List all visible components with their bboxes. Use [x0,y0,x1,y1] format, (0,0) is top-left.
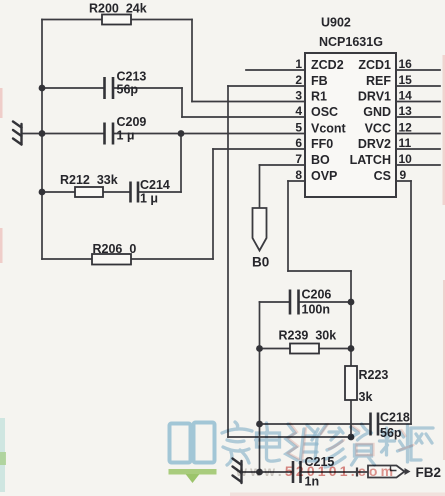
wire: pin 8 OVP stub [288,180,305,182]
svg-text:BO: BO [311,153,330,167]
wire: C206 row left corner [260,301,290,303]
svg-text:11: 11 [399,136,412,150]
resistor R200 [102,15,131,25]
wire: pin 7 B0 stub [260,164,306,166]
svg-text:56p: 56p [117,83,139,97]
junction bottom row [256,469,263,476]
wire: FF0 vertical to R206 [212,149,214,259]
junction C218 row left [256,421,263,428]
wire: C206 row right [300,301,352,303]
watermark logo: open book (right page) [194,423,215,463]
svg-text:R212 33k: R212 33k [60,173,118,187]
wire: left bus to R212 [42,191,75,193]
wire: C218 to CS corner [379,423,412,425]
svg-text:R206 0: R206 0 [93,242,137,256]
wire: C214 riser [180,134,182,193]
wire: pin 13 GND stub [396,116,440,118]
wire: C218 row left [260,423,371,425]
svg-text:ZCD1: ZCD1 [358,58,391,72]
watermark char 网 [411,428,433,460]
svg-text:6: 6 [295,136,302,150]
connector B0 (arrow down) [253,208,267,251]
svg-text:14: 14 [399,89,413,103]
wire: C214 right link [139,191,182,193]
resistor R223 (vertical) [345,366,357,400]
junction R239 right [348,345,355,352]
wire: pin 6 FF0 horizontal [213,148,305,150]
junction C214 riser at Vcont row [178,130,185,137]
junction on left bus at R212 row [39,189,46,196]
wire: B0 drop [259,165,261,208]
svg-text:LATCH: LATCH [350,153,391,167]
wire: pin 14 DRV1 stub [396,101,440,103]
watermark char 维 [286,424,318,463]
watermark red fringe strokes [288,423,414,462]
resistor R206 [92,254,131,265]
wire: C213 to corner [114,87,183,89]
svg-text:13: 13 [399,104,413,118]
op-amp/IC U902 body [305,53,396,197]
watermark char 修 [312,425,345,467]
svg-text:VCC: VCC [365,122,391,136]
capacitor C218 plates [369,413,372,436]
watermark logo: open book (left page) [170,424,191,463]
wire: pin 5 Vcont row [114,133,306,135]
wire: R239 row right [319,348,351,350]
svg-text:3: 3 [295,89,302,103]
ground (bottom row) [233,459,242,484]
wire: pin 10 LATCH stub [396,164,440,166]
resistor R239 [290,344,319,354]
wire: left bus vertical [41,20,43,260]
wire: C213 corner vertical [181,88,183,117]
wire: C213 row left [42,87,104,89]
wire: R206 row right [131,258,213,260]
wire: FB bottom row to R223 [228,436,351,438]
svg-text:1 μ: 1 μ [117,129,135,143]
svg-text:C209: C209 [117,115,147,129]
svg-text:OVP: OVP [311,169,337,183]
wire: OVP vertical [287,181,289,271]
wire: top row to R200 [42,19,102,21]
svg-text:FB2: FB2 [416,465,442,480]
watermark char 资 [350,424,375,465]
watermark char 家 [222,422,252,465]
svg-text:DRV2: DRV2 [358,137,391,151]
wire: pin 2 FB horizontal [228,85,305,87]
svg-text:R223: R223 [359,368,389,382]
wire: ground stub to left bus [22,133,43,135]
svg-text:R1: R1 [311,90,327,104]
wire: C215 to FB2 [301,471,368,473]
svg-text:8: 8 [295,168,302,182]
junction on left bus at C213 row [39,85,46,92]
junction C206 right [348,299,355,306]
svg-text:2: 2 [295,73,302,87]
svg-text:ZCD2: ZCD2 [311,58,344,72]
svg-text:FB: FB [311,74,328,88]
svg-text:R239 30k: R239 30k [279,329,337,343]
wire: R200 right vertical down to pin3 [191,20,193,102]
junction R239 left [256,345,263,352]
svg-text:R200 24k: R200 24k [89,2,147,16]
wire: pin 16 ZCD1 stub [396,69,440,71]
pin numbers left 1-8 [295,57,302,182]
watermark char 料 [380,425,412,462]
svg-text:1: 1 [295,57,302,71]
svg-text:FF0: FF0 [311,137,333,151]
svg-text:16: 16 [399,57,413,71]
watermark char 电 [256,423,280,461]
pin names (left column) [311,58,347,183]
connector FB2 [357,466,411,478]
junction R223 bottom / FB row [348,434,355,441]
wire: pin 11 DRV2 stub [396,148,440,150]
capacitor C209 plates [103,123,106,145]
svg-text:1 μ: 1 μ [140,192,158,206]
wire: pin 9 CS stub [396,180,411,182]
svg-text:DRV1: DRV1 [358,90,391,104]
svg-text:5: 5 [295,121,302,135]
svg-text:12: 12 [399,121,413,135]
wire: R206 row left [42,258,92,260]
wire: right bus upper (to C206) [350,271,352,366]
svg-text:7: 7 [295,152,302,166]
watermark logo: green swoosh [169,469,217,475]
junction on left bus at C209 row [39,130,46,137]
svg-text:3k: 3k [359,390,373,404]
svg-text:Vcont: Vcont [311,122,347,136]
svg-text:www.520101.com: www.520101.com [235,463,396,479]
svg-text:9: 9 [400,168,407,182]
wire: R212 to C214 [103,191,130,193]
wire: pin 15 REF stub [396,85,440,87]
wire: pin 4 OSC horizontal [182,116,305,118]
wire: pin 12 VCC stub [396,133,440,135]
svg-text:10: 10 [399,152,413,166]
pin numbers right 16-9 [399,57,413,182]
capacitor C213 plates [103,77,106,99]
svg-text:B0: B0 [252,255,269,270]
svg-text:15: 15 [399,73,413,87]
wire: FB vertical bus [227,86,229,437]
capacitor C214 plates [129,182,132,203]
svg-text:REF: REF [366,74,391,88]
svg-text:CS: CS [374,169,391,183]
svg-text:C214: C214 [140,178,170,192]
wire: OVP link horizontal [288,270,351,272]
svg-text:OSC: OSC [311,105,338,119]
ground (left, at C209 row) [13,122,22,145]
svg-text:U902: U902 [321,16,351,30]
svg-text:4: 4 [295,104,302,118]
svg-text:C218: C218 [380,411,410,425]
wire: left mid bus vertical [259,302,261,472]
wire: R239 row left [260,348,291,350]
wire: C209 row left [42,133,104,135]
wire: pin 3 R1 horizontal [192,101,305,103]
capacitor C206 plates [289,290,292,315]
svg-text:100n: 100n [302,303,331,317]
svg-text:C206: C206 [302,288,332,302]
wire: R200 to right corner [131,19,192,21]
wire: CS vertical [410,181,412,424]
wire: R223 bottom lead [350,400,352,437]
pin names (right column) [350,58,392,183]
capacitor C215 plates [292,461,295,483]
wire: bottom row ground to C215 [242,471,293,473]
wire: pin 1 ZCD2 stub [246,69,305,71]
svg-text:C213: C213 [117,70,147,84]
resistor R212 [75,187,103,197]
svg-text:GND: GND [363,105,391,119]
svg-text:NCP1631G: NCP1631G [319,35,383,49]
